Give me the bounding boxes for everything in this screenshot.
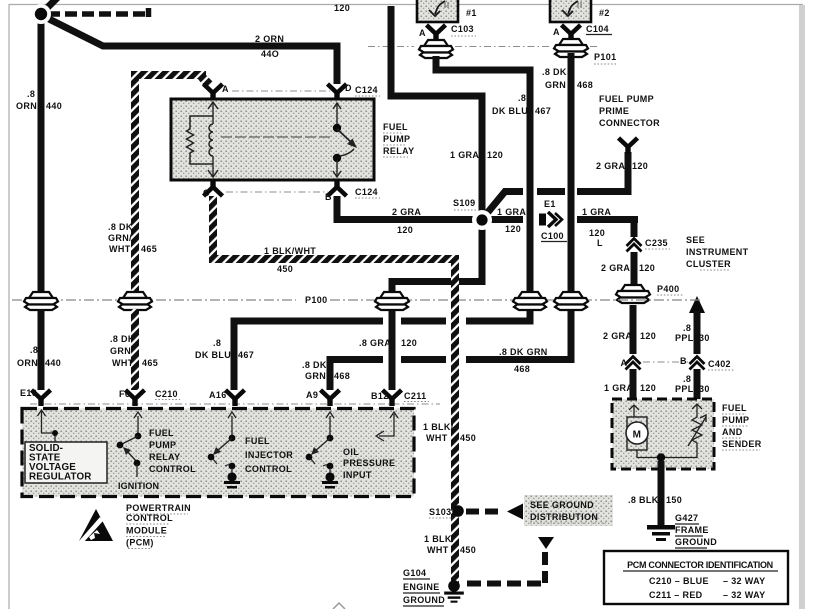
- svg-text:PRIME: PRIME: [599, 106, 629, 116]
- svg-text:– 32 WAY: – 32 WAY: [723, 576, 766, 586]
- svg-text:1 BLK/: 1 BLK/: [423, 422, 454, 432]
- svg-text:120: 120: [487, 150, 503, 160]
- svg-text:C103: C103: [451, 24, 474, 34]
- svg-text:SEE GROUND: SEE GROUND: [530, 500, 594, 510]
- svg-text:450: 450: [277, 264, 293, 274]
- svg-text:PUMP: PUMP: [383, 134, 410, 144]
- svg-text:WHT: WHT: [112, 358, 134, 368]
- svg-text:1 GRA: 1 GRA: [450, 150, 479, 160]
- svg-text:CONTROL: CONTROL: [245, 464, 292, 474]
- svg-text:PCM CONNECTOR IDENTIFICATION: PCM CONNECTOR IDENTIFICATION: [627, 560, 773, 570]
- svg-text:PPL: PPL: [675, 384, 694, 394]
- svg-text:120: 120: [334, 3, 350, 13]
- svg-text:120: 120: [639, 263, 655, 273]
- svg-text:C: C: [203, 188, 210, 198]
- svg-text:– 32 WAY: – 32 WAY: [723, 590, 766, 600]
- svg-text:C402: C402: [708, 359, 731, 369]
- svg-text:B12: B12: [371, 391, 389, 401]
- svg-text:WHT: WHT: [426, 433, 448, 443]
- svg-text:GRN: GRN: [305, 371, 326, 381]
- svg-text:120: 120: [505, 224, 521, 234]
- svg-text:GROUND: GROUND: [403, 595, 445, 605]
- svg-text:450: 450: [460, 545, 476, 555]
- svg-text:440: 440: [45, 358, 61, 368]
- svg-text:#1: #1: [466, 8, 477, 18]
- svg-text:INPUT: INPUT: [343, 470, 372, 480]
- svg-text:467: 467: [238, 350, 254, 360]
- svg-text:IGNITION: IGNITION: [118, 481, 159, 491]
- svg-text:.8: .8: [30, 345, 38, 355]
- svg-text:.8: .8: [213, 338, 221, 348]
- svg-text:P100: P100: [305, 295, 327, 305]
- svg-text:B: B: [325, 192, 332, 202]
- svg-text:C100: C100: [541, 231, 564, 241]
- svg-text:P400: P400: [657, 284, 679, 294]
- svg-text:.8 DK: .8 DK: [108, 222, 133, 232]
- svg-text:A: A: [553, 27, 560, 37]
- svg-text:AND: AND: [722, 427, 743, 437]
- svg-text:ORN: ORN: [17, 358, 38, 368]
- svg-text:OIL: OIL: [343, 447, 359, 457]
- svg-text:468: 468: [334, 371, 350, 381]
- svg-text:1 GRA: 1 GRA: [497, 207, 526, 217]
- svg-text:PUMP: PUMP: [722, 415, 749, 425]
- svg-text:.8 DK: .8 DK: [302, 360, 327, 370]
- svg-text:A9: A9: [306, 390, 318, 400]
- svg-text:S103: S103: [429, 507, 451, 517]
- svg-text:120: 120: [397, 225, 413, 235]
- svg-text:120: 120: [640, 383, 656, 393]
- svg-text:120: 120: [401, 338, 417, 348]
- svg-text:C124: C124: [355, 85, 378, 95]
- svg-text:.8 DK GRN: .8 DK GRN: [499, 347, 548, 357]
- svg-text:E1: E1: [544, 199, 556, 209]
- svg-text:467: 467: [535, 106, 551, 116]
- svg-text:RELAY: RELAY: [149, 452, 180, 462]
- svg-text:ORN: ORN: [16, 101, 37, 111]
- svg-text:WHT: WHT: [109, 244, 131, 254]
- svg-text:468: 468: [514, 364, 530, 374]
- svg-text:CONNECTOR: CONNECTOR: [599, 118, 660, 128]
- svg-text:.8: .8: [683, 323, 691, 333]
- svg-text:.8: .8: [27, 89, 35, 99]
- svg-text:B: B: [680, 356, 687, 366]
- svg-text:450: 450: [460, 433, 476, 443]
- svg-text:L: L: [597, 238, 603, 248]
- svg-text:.8 BLK: .8 BLK: [628, 495, 659, 505]
- svg-text:GRN/: GRN/: [110, 346, 134, 356]
- svg-text:A: A: [419, 28, 426, 38]
- svg-text:1 GRA: 1 GRA: [604, 383, 633, 393]
- svg-text:465: 465: [142, 358, 158, 368]
- svg-text:FUEL: FUEL: [149, 428, 174, 438]
- svg-text:#2: #2: [599, 8, 610, 18]
- svg-text:MODULE: MODULE: [126, 526, 167, 536]
- svg-text:2 GRA: 2 GRA: [601, 263, 630, 273]
- svg-text:150: 150: [666, 495, 682, 505]
- svg-text:PRESSURE: PRESSURE: [343, 458, 395, 468]
- svg-text:A: A: [621, 358, 628, 368]
- svg-text:GRN/: GRN/: [108, 233, 132, 243]
- svg-text:CLUSTER: CLUSTER: [686, 259, 731, 269]
- svg-text:PPL: PPL: [675, 333, 694, 343]
- svg-text:2 GRA: 2 GRA: [392, 207, 421, 217]
- svg-text:FRAME: FRAME: [675, 525, 709, 535]
- svg-text:120: 120: [632, 161, 648, 171]
- svg-text:GROUND: GROUND: [675, 537, 717, 547]
- svg-text:SEE: SEE: [686, 235, 705, 245]
- svg-text:G427: G427: [675, 513, 698, 523]
- svg-text:WHT: WHT: [427, 545, 449, 555]
- svg-text:D: D: [345, 83, 352, 93]
- svg-text:120: 120: [589, 228, 605, 238]
- svg-text:FUEL PUMP: FUEL PUMP: [599, 94, 654, 104]
- svg-text:2 GRA: 2 GRA: [603, 331, 632, 341]
- svg-text:120: 120: [640, 331, 656, 341]
- svg-text:INJECTOR: INJECTOR: [245, 450, 293, 460]
- svg-text:DK BLU: DK BLU: [195, 350, 231, 360]
- svg-text:2 GRA: 2 GRA: [596, 161, 625, 171]
- svg-text:FUEL: FUEL: [245, 436, 270, 446]
- svg-text:M: M: [633, 430, 642, 441]
- svg-text:PUMP: PUMP: [149, 440, 176, 450]
- svg-text:1 BLK/WHT: 1 BLK/WHT: [264, 246, 316, 256]
- svg-text:INSTRUMENT: INSTRUMENT: [686, 247, 749, 257]
- svg-text:(PCM): (PCM): [126, 538, 154, 548]
- svg-text:S109: S109: [453, 198, 475, 208]
- svg-text:465: 465: [141, 244, 157, 254]
- svg-text:DISTRIBUTION: DISTRIBUTION: [530, 512, 598, 522]
- svg-text:A: A: [222, 84, 229, 94]
- svg-text:P101: P101: [594, 52, 616, 62]
- svg-text:F6: F6: [119, 389, 130, 399]
- svg-text:.8 GRA: .8 GRA: [359, 338, 391, 348]
- svg-text:2 ORN: 2 ORN: [255, 34, 284, 44]
- svg-text:SENDER: SENDER: [722, 439, 762, 449]
- svg-text:RELAY: RELAY: [383, 146, 414, 156]
- svg-text:1 GRA: 1 GRA: [582, 207, 611, 217]
- svg-text:C104: C104: [586, 24, 609, 34]
- svg-text:FUEL: FUEL: [722, 403, 747, 413]
- svg-text:CONTROL: CONTROL: [126, 513, 173, 523]
- svg-text:DK BLU: DK BLU: [492, 106, 528, 116]
- svg-text:30: 30: [699, 384, 710, 394]
- svg-text:G104: G104: [403, 568, 426, 578]
- svg-text:440: 440: [46, 101, 62, 111]
- svg-text:C211: C211: [404, 391, 426, 401]
- svg-text:.8: .8: [518, 93, 526, 103]
- svg-text:44O: 44O: [261, 49, 279, 59]
- svg-text:POWERTRAIN: POWERTRAIN: [126, 503, 191, 513]
- svg-text:ENGINE: ENGINE: [403, 582, 440, 592]
- svg-text:REGULATOR: REGULATOR: [29, 472, 92, 483]
- svg-text:GRN: GRN: [545, 80, 566, 90]
- svg-text:30: 30: [699, 333, 710, 343]
- svg-text:C211 – RED: C211 – RED: [649, 590, 703, 600]
- svg-text:A16: A16: [209, 390, 227, 400]
- svg-text:C235: C235: [645, 238, 668, 248]
- svg-text:C124: C124: [355, 187, 378, 197]
- svg-text:C210 – BLUE: C210 – BLUE: [649, 576, 709, 586]
- svg-text:C210: C210: [155, 389, 178, 399]
- svg-text:FUEL: FUEL: [383, 122, 408, 132]
- svg-text:.8: .8: [683, 374, 691, 384]
- svg-text:CONTROL: CONTROL: [149, 464, 196, 474]
- svg-text:.8 DK: .8 DK: [542, 67, 567, 77]
- svg-text:468: 468: [577, 80, 593, 90]
- svg-text:1 BLK/: 1 BLK/: [424, 534, 455, 544]
- svg-text:E16: E16: [20, 388, 37, 398]
